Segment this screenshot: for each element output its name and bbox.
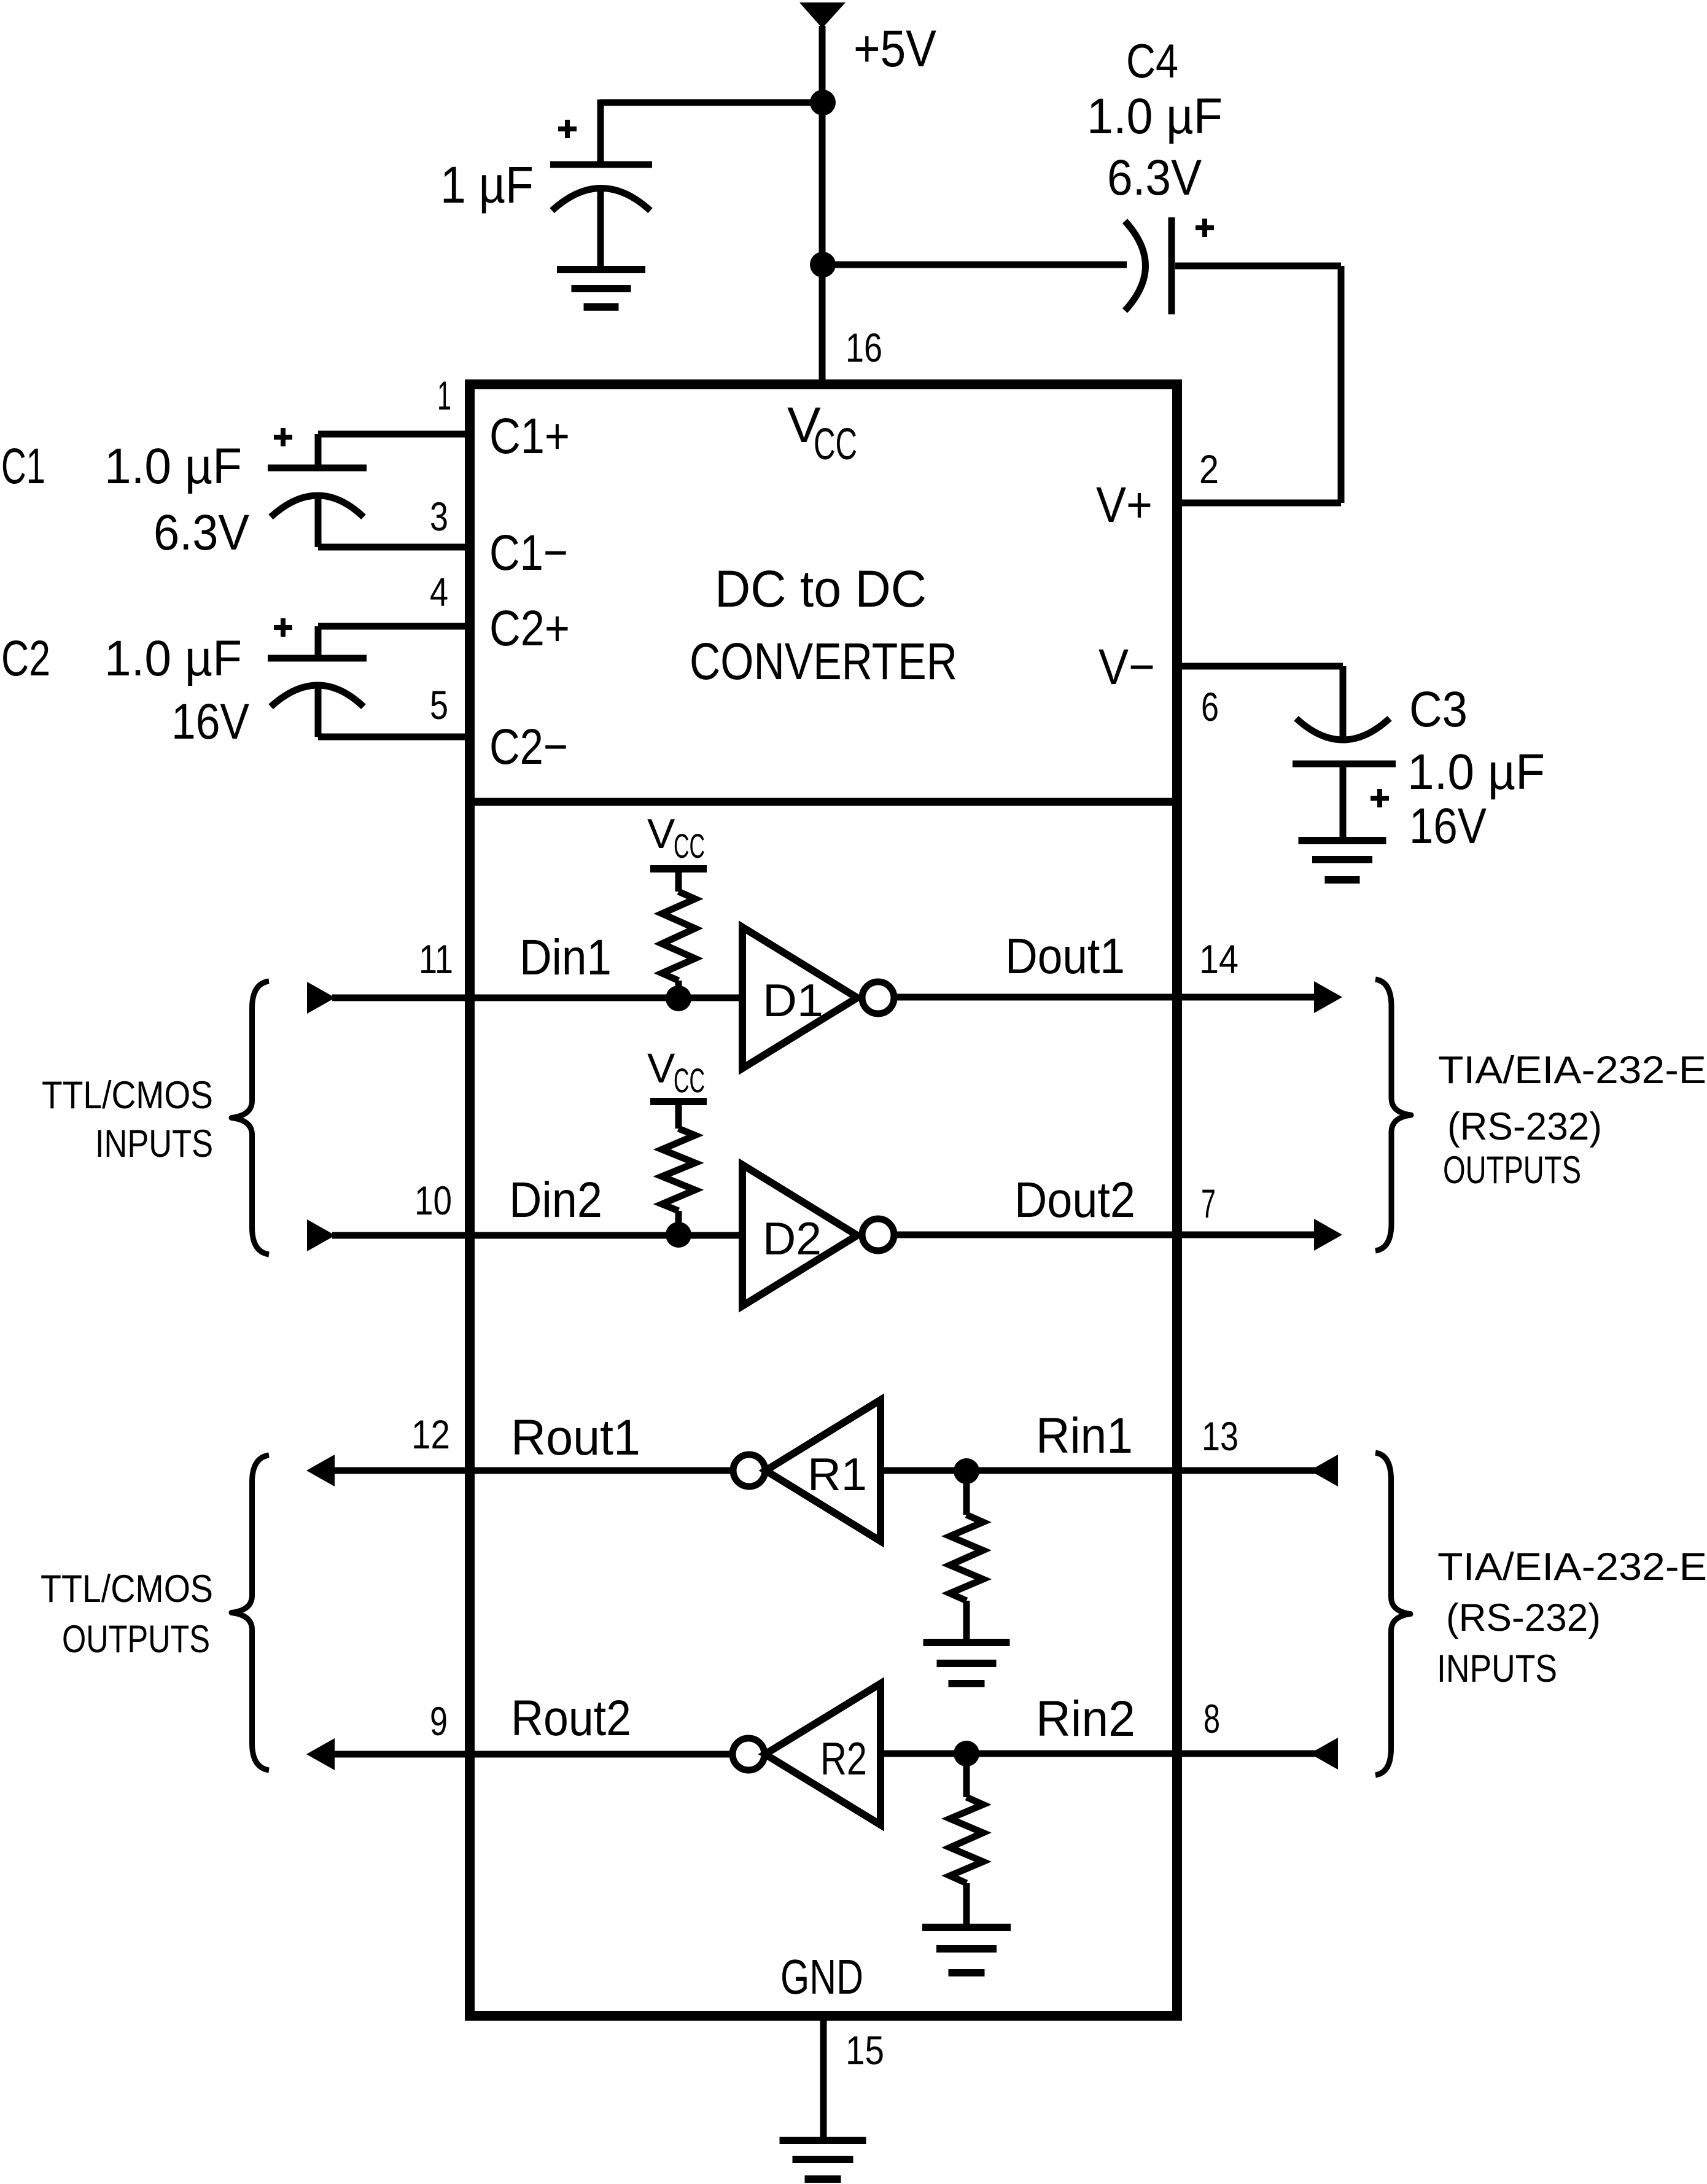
- svg-text:OUTPUTS: OUTPUTS: [1443, 1149, 1581, 1192]
- svg-text:8: 8: [1203, 1696, 1220, 1741]
- svg-text:(RS-232): (RS-232): [1446, 1596, 1601, 1639]
- svg-text:C2: C2: [1, 631, 50, 686]
- input arrow Din2: [307, 1219, 335, 1251]
- svg-text:D2: D2: [763, 1213, 822, 1264]
- svg-text:11: 11: [419, 936, 453, 982]
- svg-text:CONVERTER: CONVERTER: [690, 632, 957, 690]
- pullup VCC bar 2: [650, 1098, 707, 1105]
- svg-text:5: 5: [430, 682, 448, 728]
- wire Dout2 pin 7: [894, 1232, 1315, 1238]
- receiver R1 triangle: [766, 1400, 881, 1541]
- svg-text:TIA/EIA-232-E: TIA/EIA-232-E: [1438, 1049, 1706, 1092]
- wire Din2 pin 10: [332, 1232, 742, 1239]
- svg-text:1.0 µF: 1.0 µF: [1407, 744, 1545, 800]
- svg-text:TTL/CMOS: TTL/CMOS: [42, 1074, 213, 1117]
- svg-text:TTL/CMOS: TTL/CMOS: [41, 1568, 213, 1611]
- brace TTL/CMOS inputs: [231, 981, 269, 1254]
- svg-text:V: V: [647, 810, 675, 857]
- svg-text:10: 10: [414, 1178, 452, 1223]
- wire Rout1 pin 12: [334, 1467, 733, 1474]
- svg-text:Din2: Din2: [509, 1172, 602, 1228]
- brace RS-232 inputs: [1375, 1453, 1410, 1775]
- resistor pullup 2: [675, 1102, 682, 1129]
- capacitor C4 plus: [1196, 225, 1214, 230]
- ground C3: [1299, 837, 1386, 844]
- driver D2 bubble: [862, 1219, 894, 1251]
- resistor pulldown 2: [963, 1754, 970, 1797]
- capacitor C1 plus: [274, 435, 292, 440]
- wire Rout2 pin 9: [334, 1751, 733, 1758]
- node dot Rin1: [954, 1458, 979, 1484]
- wire C4 to V+ vertical: [1175, 263, 1341, 270]
- svg-text:C1: C1: [1, 438, 45, 494]
- node dot Din1: [666, 985, 691, 1011]
- IC internal divider: [465, 798, 1182, 806]
- capacitor C1 curved plate: [271, 495, 364, 517]
- svg-text:C1+: C1+: [489, 408, 570, 464]
- wire V+ pin 2: [1182, 500, 1341, 507]
- ground pulldown 1: [923, 1639, 1010, 1646]
- wire Din1 pin 11: [332, 995, 742, 1001]
- svg-text:R1: R1: [807, 1448, 867, 1500]
- capacitor C1 top plate: [268, 465, 367, 472]
- svg-text:C2−: C2−: [489, 719, 568, 775]
- svg-text:1.0 µF: 1.0 µF: [1087, 88, 1223, 144]
- svg-text:4: 4: [430, 569, 448, 615]
- wire Dout1 pin 14: [894, 994, 1315, 1001]
- wire cap to ground: [597, 192, 604, 270]
- output arrow Dout2: [1314, 1219, 1342, 1251]
- svg-text:15: 15: [846, 2027, 884, 2073]
- svg-text:13: 13: [1202, 1413, 1238, 1459]
- capacitor 1uF bypass stub: [597, 99, 604, 165]
- receiver R2 bubble: [733, 1738, 764, 1770]
- output arrow Dout1: [1314, 981, 1342, 1013]
- svg-text:3: 3: [430, 494, 448, 539]
- wire pin 3: [318, 544, 470, 551]
- svg-text:INPUTS: INPUTS: [1437, 1647, 1557, 1690]
- capacitor 1uF plus: [558, 126, 577, 131]
- wire C3 to ground: [1340, 764, 1347, 839]
- svg-text:DC to DC: DC to DC: [715, 560, 927, 618]
- node junction dot mid: [810, 252, 836, 278]
- wire GND pin 15: [820, 2021, 827, 2138]
- svg-text:R2: R2: [820, 1733, 867, 1784]
- svg-text:6.3V: 6.3V: [154, 505, 249, 561]
- svg-text:Rin1: Rin1: [1036, 1408, 1133, 1464]
- IC box outline: [470, 384, 1177, 2016]
- svg-text:1.0 µF: 1.0 µF: [104, 438, 242, 494]
- svg-text:Rout2: Rout2: [511, 1690, 631, 1746]
- wire to bypass cap: [601, 99, 823, 106]
- node junction dot top: [810, 90, 836, 115]
- svg-text:C2+: C2+: [489, 600, 570, 656]
- svg-text:12: 12: [411, 1412, 450, 1457]
- capacitor C2 stub bottom: [315, 687, 322, 737]
- svg-text:16: 16: [846, 325, 882, 370]
- svg-text:OUTPUTS: OUTPUTS: [62, 1618, 210, 1661]
- capacitor 1uF top plate: [550, 161, 652, 168]
- ground pulldown 2: [922, 1924, 1011, 1931]
- wire Rin2 pin 8: [881, 1751, 1337, 1757]
- resistor pulldown 1: [963, 1471, 970, 1515]
- driver D1 bubble: [862, 982, 894, 1014]
- svg-text:7: 7: [1201, 1181, 1216, 1226]
- capacitor C2 stub top: [315, 626, 322, 658]
- svg-text:9: 9: [430, 1698, 448, 1744]
- svg-text:14: 14: [1199, 936, 1238, 982]
- svg-text:Din1: Din1: [519, 930, 612, 985]
- driver D2 triangle: [742, 1165, 857, 1306]
- svg-text:C1−: C1−: [489, 525, 568, 581]
- output arrow Rout2: [306, 1738, 335, 1770]
- svg-text:D1: D1: [763, 974, 823, 1026]
- capacitor C2 curved plate: [271, 685, 364, 707]
- receiver R2 triangle: [765, 1684, 881, 1825]
- svg-text:2: 2: [1199, 446, 1219, 492]
- wire V- pin 6: [1182, 663, 1343, 670]
- svg-text:1.0 µF: 1.0 µF: [104, 631, 242, 686]
- wire pin 5: [318, 734, 470, 740]
- brace RS-232 outputs: [1375, 979, 1411, 1251]
- driver D1 triangle: [742, 927, 857, 1068]
- output arrow Rout1: [306, 1455, 335, 1486]
- svg-text:C4: C4: [1126, 34, 1178, 88]
- svg-text:TIA/EIA-232-E: TIA/EIA-232-E: [1437, 1545, 1707, 1588]
- brace TTL/CMOS outputs: [231, 1455, 269, 1770]
- svg-text:16V: 16V: [171, 694, 249, 750]
- svg-text:V−: V−: [1098, 639, 1155, 695]
- capacitor 1uF curved plate: [552, 188, 650, 211]
- svg-text:6.3V: 6.3V: [1107, 150, 1202, 206]
- svg-text:(RS-232): (RS-232): [1447, 1105, 1602, 1148]
- capacitor C3 curved plate: [1296, 718, 1390, 740]
- capacitor C4 straight plate: [1168, 217, 1175, 314]
- wire to C4: [823, 262, 1127, 268]
- pullup VCC bar 1: [650, 865, 707, 872]
- svg-text:C3: C3: [1409, 682, 1468, 737]
- svg-text:INPUTS: INPUTS: [95, 1122, 213, 1165]
- ground main: [780, 2137, 866, 2144]
- resistor pullup 1: [675, 869, 682, 892]
- svg-text:CC: CC: [674, 826, 705, 865]
- input arrow Rin1: [1310, 1455, 1338, 1486]
- receiver R1 bubble: [733, 1455, 765, 1486]
- wire Rin1 pin 13: [881, 1467, 1337, 1474]
- input arrow Din1: [307, 982, 335, 1014]
- svg-text:6: 6: [1201, 684, 1219, 729]
- svg-text:Rout1: Rout1: [511, 1410, 640, 1466]
- svg-text:V: V: [647, 1045, 675, 1092]
- svg-text:Dout1: Dout1: [1005, 928, 1125, 984]
- svg-text:V+: V+: [1096, 477, 1153, 533]
- svg-text:16V: 16V: [1409, 798, 1487, 854]
- node dot Rin2: [954, 1741, 979, 1766]
- capacitor C1 stub bottom: [315, 497, 322, 547]
- svg-text:1 µF: 1 µF: [440, 156, 534, 214]
- node dot Din2: [666, 1222, 691, 1248]
- svg-text:CC: CC: [814, 420, 857, 469]
- power +5V arrow: [799, 2, 846, 28]
- wire +5V rail: [819, 26, 826, 384]
- capacitor C3 plus: [1371, 796, 1389, 801]
- capacitor C2 top plate: [268, 655, 367, 662]
- wire pin 1: [318, 431, 470, 438]
- capacitor C3 straight plate: [1293, 761, 1396, 768]
- capacitor C4 curved plate: [1125, 221, 1146, 311]
- svg-text:Rin2: Rin2: [1036, 1691, 1135, 1747]
- input arrow Rin2: [1310, 1738, 1338, 1770]
- svg-text:CC: CC: [674, 1061, 705, 1100]
- svg-text:+5V: +5V: [853, 20, 936, 77]
- ground bypass cap: [557, 266, 645, 273]
- svg-text:GND: GND: [780, 1949, 863, 2004]
- svg-text:1: 1: [437, 373, 451, 418]
- capacitor C1 stub top: [315, 434, 322, 468]
- wire pin 4: [318, 623, 470, 630]
- svg-text:Dout2: Dout2: [1014, 1172, 1135, 1228]
- capacitor C2 plus: [274, 625, 292, 630]
